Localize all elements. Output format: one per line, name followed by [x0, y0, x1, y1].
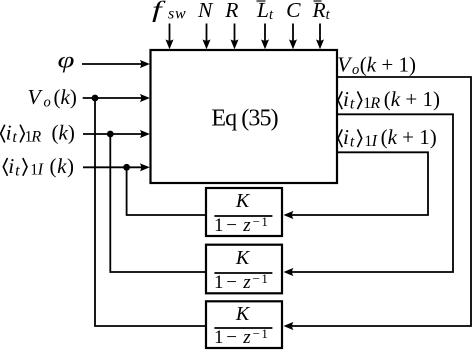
arrow into K2 [284, 268, 294, 276]
svg-text:R: R [224, 0, 238, 22]
svg-text:C: C [286, 0, 301, 22]
svg-text:i: i [343, 125, 349, 149]
wire K1 output to i_t1I junction [127, 167, 206, 215]
svg-text:(k + 1): (k + 1) [381, 125, 437, 149]
block K2 [206, 245, 282, 294]
label i_t 1I (k) [3, 154, 74, 180]
svg-text:i: i [8, 154, 14, 178]
svg-text:−1: −1 [253, 326, 270, 341]
svg-text:i: i [6, 121, 12, 145]
wire i_t1I input [83, 163, 150, 171]
main block Eq (35) [151, 50, 338, 183]
svg-text:R: R [369, 95, 380, 112]
wire K2 output to i_t1R junction [110, 134, 206, 272]
svg-text:o: o [352, 62, 359, 78]
svg-text:(k): (k) [54, 85, 77, 109]
svg-text:(k + 1): (k + 1) [384, 87, 440, 111]
svg-text:(k): (k) [50, 154, 75, 178]
wire i_t1R input [83, 130, 150, 138]
svg-text:t: t [350, 96, 355, 113]
wire N arrow [202, 24, 210, 50]
svg-text:(k + 1): (k + 1) [360, 53, 416, 77]
svg-text:R: R [30, 128, 41, 145]
wire V_o(k+1) output [287, 77, 471, 326]
label V_o(k) [28, 85, 77, 110]
svg-text:sw: sw [168, 6, 187, 23]
block K1 [206, 188, 282, 236]
artifact top fragment 1 [257, 0, 266, 2]
svg-text:K: K [235, 303, 251, 325]
svg-text:t: t [15, 162, 20, 179]
svg-text:1: 1 [214, 327, 224, 348]
svg-text:1: 1 [214, 215, 224, 236]
svg-text:K: K [235, 247, 251, 269]
block K3 [206, 301, 282, 348]
svg-text:−1: −1 [253, 271, 270, 286]
wire L_t arrow [261, 24, 269, 50]
svg-text:K: K [235, 190, 251, 212]
node i_t1R junction [107, 131, 114, 138]
node V_o junction [92, 95, 99, 102]
svg-text:−: − [226, 215, 237, 236]
svg-text:−: − [226, 272, 237, 293]
arrow into K1 [284, 211, 294, 219]
label i_t 1R (k) [1, 121, 75, 147]
label i_t1I(k+1) [338, 125, 437, 151]
svg-text:−: − [226, 327, 237, 348]
wire R_t arrow [316, 24, 324, 50]
wire i_t1R(k+1) output [287, 114, 453, 272]
svg-text:z: z [242, 215, 251, 236]
svg-text:N: N [197, 0, 214, 22]
wire phi input [82, 60, 150, 68]
svg-text:o: o [44, 94, 51, 110]
label V_o(k+1) [337, 53, 416, 78]
svg-text:−1: −1 [253, 214, 270, 229]
svg-text:(k): (k) [52, 121, 75, 145]
svg-text:Eq (35): Eq (35) [211, 106, 277, 132]
wire K3 output to V_o junction [95, 98, 206, 326]
svg-text:z: z [242, 327, 251, 348]
svg-text:φ: φ [58, 47, 75, 72]
svg-text:t: t [350, 134, 355, 151]
artifact top fragment 2 [314, 0, 322, 2]
label i_t1R(k+1) [338, 87, 440, 113]
wire V_o(k) input [83, 94, 150, 102]
svg-text:z: z [242, 272, 251, 293]
svg-text:1: 1 [214, 272, 224, 293]
arrow into K3 [284, 322, 294, 330]
wire f_sw arrow [165, 24, 173, 50]
node i_t1I junction [123, 164, 130, 171]
wire C arrow [289, 24, 297, 50]
wire i_t1I(k+1) output [287, 152, 428, 215]
wire R arrow [230, 24, 238, 50]
svg-text:i: i [343, 87, 349, 111]
svg-text:t: t [12, 129, 17, 146]
